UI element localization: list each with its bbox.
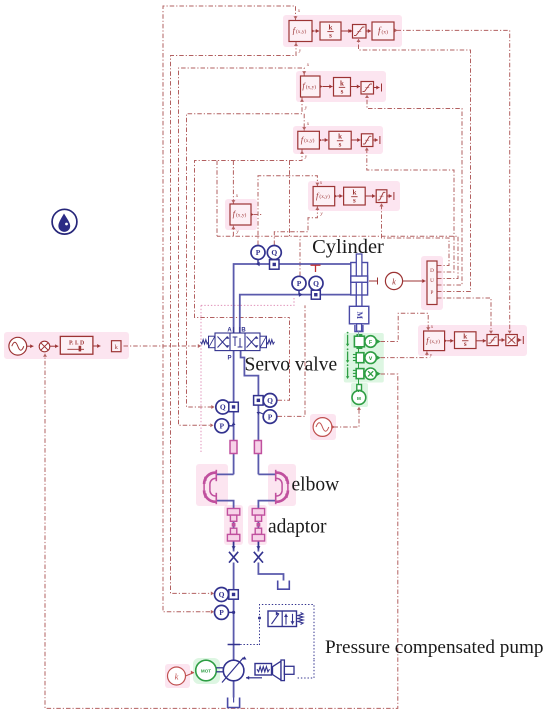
svg-text:Cylinder: Cylinder (312, 236, 384, 258)
pressure compensator pilot box (260, 605, 315, 661)
svg-text:MOT: MOT (201, 669, 211, 674)
compensator spring (298, 613, 303, 625)
valve left position crossed arrows (218, 337, 228, 348)
wire feedback valve-line-P to row2 x-input (179, 68, 305, 425)
svg-text:P. I. D: P. I. D (69, 341, 84, 347)
saturation block row4 (376, 190, 387, 203)
svg-text:P: P (220, 422, 225, 431)
wire spool broadcast drop left (216, 161, 218, 237)
flow arrow into left orifice (233, 542, 235, 550)
svg-text:s: s (341, 88, 344, 96)
force sensor F output (365, 336, 377, 348)
wire branch to f5 x-input (232, 161, 234, 204)
wire T-line P sensor riser (278, 305, 306, 416)
hydraulic cylinder body (351, 263, 368, 296)
pipe return line to tank (258, 563, 283, 581)
svg-text:м: м (357, 396, 361, 402)
row5 output stub (254, 214, 264, 216)
cylinder rod lower (356, 282, 362, 306)
svg-text:Q: Q (271, 248, 277, 257)
pipe T-port return jog (241, 351, 259, 475)
tank under pump (228, 698, 240, 708)
svg-text:k: k (329, 24, 333, 32)
flow arrow on cylinder rod line (299, 292, 303, 296)
sensor P at (258,252.5) (251, 246, 265, 260)
integrator block k/s row2 (334, 78, 351, 97)
displacement sensor X output (365, 368, 377, 380)
pipe left elbow loop (216, 473, 234, 475)
elbow 90 fitting pair at x=215.5 (204, 470, 216, 504)
wire DUP tap2 to f5 y-input (217, 236, 458, 278)
junction tick on pump line (228, 644, 240, 646)
flow arrow on cylinder head line (256, 262, 260, 266)
pipe right elbow loop (258, 473, 276, 475)
fluid properties icon (52, 209, 77, 234)
integrator block k/s row1 (320, 22, 341, 40)
svg-text:adaptor: adaptor (268, 517, 327, 538)
junction block at (228.8,402.2) (229, 402, 239, 412)
row6 output arrow terminator (517, 339, 521, 341)
sensor Q at (222.8,407) (216, 400, 230, 414)
svg-text:D: D (430, 268, 434, 274)
summing junction (39, 341, 50, 352)
svg-text:k: k (340, 79, 344, 87)
pipe pump to tank (233, 681, 235, 698)
red tee mark on head line (311, 264, 321, 266)
function block f(x,y) row6 (424, 331, 445, 351)
junction block at (228.8,589.7) (229, 590, 239, 600)
integrator block k/s row6 (455, 332, 477, 349)
coupling on return line (254, 441, 261, 454)
svg-text:P: P (431, 290, 434, 296)
stack connector (357, 385, 362, 391)
svg-text:P: P (268, 412, 273, 421)
junction block at (253.6,395.6) (254, 396, 264, 406)
wire sine2 to load mass (334, 407, 360, 427)
sensor Q at (316,283.3) (309, 276, 323, 290)
elbow 90 fitting pair at x=276.5 (276, 470, 288, 504)
svg-text:A: A (227, 328, 232, 334)
pipe P-port supply drop (233, 351, 235, 475)
svg-text:s: s (464, 340, 467, 348)
wire controller k to servo valve (124, 345, 201, 347)
orifice right (254, 552, 263, 563)
valve right position crossed arrows (247, 337, 257, 348)
wire DUP tap6 to row6 saturation (437, 298, 491, 334)
wire DUP tap1 to row4 saturation (382, 204, 450, 266)
svg-text:P: P (219, 608, 224, 617)
servo valve 4/3 directional (215, 333, 260, 351)
svg-text:P: P (256, 248, 261, 257)
wire A-line Q sensor to row4 y-input (274, 207, 317, 246)
integrator block k/s row3 (329, 131, 351, 149)
junction block at (269.5,259.7) (270, 260, 280, 270)
function block f(x,y) row5 (230, 204, 251, 225)
svg-text:s: s (329, 32, 332, 40)
wire feedback valve-line-Q to row2 y / row3 x (187, 98, 303, 408)
wire row3 x-input drop (303, 114, 305, 131)
row2 output arrow terminator (374, 87, 380, 89)
pipe supply line to pump (233, 563, 235, 661)
row3 output arrow terminator (373, 139, 378, 141)
svg-text:k: k (175, 672, 179, 682)
velocity sensor V output (365, 352, 377, 364)
sensor P at (299,283.3) (292, 276, 306, 290)
svg-text:k: k (392, 277, 396, 287)
multiplier block row6 (506, 335, 518, 346)
pink pilot line horizontal (201, 298, 294, 306)
wire spool broadcast drop right (289, 161, 291, 237)
current arrows i (347, 335, 349, 345)
wire DUP tap3 to row3 saturation (367, 148, 454, 273)
junction block at (311.3,290.2) (311, 290, 320, 299)
svg-text:M: M (355, 312, 364, 320)
svg-text:90: 90 (284, 493, 289, 499)
sensor P at (270,416.6) (263, 410, 277, 424)
function block f(x,y) row3 (298, 131, 320, 149)
wire feedback loop pump-Q to row1 y-input (171, 42, 297, 594)
wire T-line Q sensor riser (278, 318, 290, 401)
wire A-line P sensor to row4 x-input (258, 176, 317, 245)
sensor P at (221.5,612.4) (215, 605, 229, 619)
valve centre position blocked ports (234, 337, 236, 346)
cylinder rod upper (356, 254, 362, 276)
signal source sine1 (9, 337, 27, 355)
svg-text:B: B (241, 328, 246, 334)
svg-text:Q: Q (313, 279, 319, 288)
orifice left (229, 552, 238, 563)
wire feedback loop pump-P to row1 x-input (163, 6, 296, 612)
row4 output arrow terminator (387, 195, 392, 197)
svg-text:Servo valve: Servo valve (245, 355, 338, 376)
svg-text:U: U (430, 278, 434, 284)
adaptor fitting at x=233.6 (227, 509, 239, 516)
valve right solenoid wing and spring (260, 336, 267, 348)
wire row1 f(x) output to row6 multiplier (397, 30, 510, 333)
function block f(x,y) row2 (301, 76, 321, 97)
svg-text:s: s (339, 141, 342, 149)
tank return (278, 581, 290, 590)
motor shaft (216, 667, 223, 669)
svg-text:Pressure compensated pump: Pressure compensated pump (325, 637, 543, 658)
electric motor MOT (196, 660, 217, 681)
svg-text:elbow: elbow (292, 475, 340, 496)
saturation block row2 (361, 82, 374, 95)
stack links (358, 332, 360, 337)
saturation block row6 (487, 335, 498, 346)
svg-text:Q: Q (267, 396, 273, 405)
sensor Q at (221.5,594.5) (215, 588, 229, 602)
pipe B-port riser to cylinder rod line (240, 295, 351, 333)
force sensor body (354, 336, 364, 347)
function block f(x,y) row1 (289, 21, 312, 42)
valve left solenoid wing and spring (209, 336, 216, 348)
svg-text:90: 90 (203, 476, 208, 482)
variable displacement pump (223, 660, 244, 681)
svg-text:Q: Q (220, 403, 226, 412)
svg-text:Q: Q (219, 590, 225, 599)
load mass block M (349, 306, 368, 324)
svg-text:P: P (297, 279, 302, 288)
compensator valve (268, 611, 297, 627)
wire DUP tap5 to row1 saturation (359, 39, 471, 292)
swash control arrow (246, 677, 262, 679)
controller P.I.D block (60, 336, 93, 354)
wire DUP tap4 to row2 saturation (367, 95, 462, 285)
guide body (356, 369, 364, 379)
spring damper body (356, 353, 364, 363)
rod extension to load (356, 295, 362, 306)
gain block k (112, 341, 122, 352)
function block f(x,y) row4 (313, 187, 335, 206)
rod below mass (357, 324, 362, 331)
svg-text:P: P (227, 356, 231, 362)
swash actuator (273, 661, 282, 680)
signal duplicator DUP (427, 261, 437, 305)
saturation block row3 (361, 134, 373, 147)
pink pilot line vertical near valve window (200, 305, 202, 452)
pipe A-port riser to cylinder head line (234, 264, 351, 333)
svg-text:k: k (352, 189, 356, 197)
sensor P at (221.8,425.8) (215, 419, 229, 433)
wire velocity sensor V to f6 y-input (381, 351, 427, 357)
swash spring block W (255, 664, 272, 676)
signal source sine2 (313, 418, 332, 437)
coupling on supply line (230, 441, 237, 454)
svg-text:90: 90 (284, 476, 289, 482)
sensor Q at (274.3,252.5) (267, 246, 281, 260)
constant signal k pump (168, 667, 186, 685)
cylinder piston (351, 276, 368, 282)
adaptor fitting at x=258.4 (252, 509, 264, 516)
integrator block k/s row4 (344, 187, 366, 205)
flow arrow into right orifice (257, 542, 259, 550)
svg-text:s: s (353, 197, 356, 205)
rod clevis end (355, 325, 363, 332)
svg-text:k: k (338, 133, 342, 141)
position transducer k (369, 280, 378, 282)
wire force sensor F to f6 x-input (381, 313, 429, 341)
wire displacement sensor X to summer feedback loop (45, 354, 398, 709)
mass element M (352, 391, 366, 405)
saturation block row1 (353, 25, 367, 39)
sensor Q at (270,400.3) (263, 394, 277, 408)
wire B-line P sensor riser (299, 236, 301, 276)
svg-text:90: 90 (203, 493, 208, 499)
wire spool window to row3 y-input (195, 150, 303, 318)
function block f(x) row1 (372, 22, 394, 40)
